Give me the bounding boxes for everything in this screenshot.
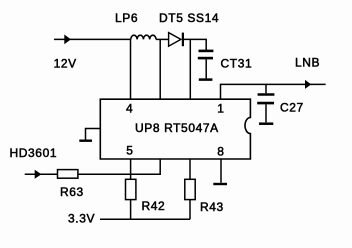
svg-text:CT31: CT31 <box>221 56 253 70</box>
svg-text:LP6: LP6 <box>115 11 138 25</box>
svg-text:C27: C27 <box>280 101 304 115</box>
svg-text:DT5 SS14: DT5 SS14 <box>159 11 219 25</box>
wire inductor to diode <box>156 38 169 40</box>
wire R43 bottom lead <box>189 200 191 220</box>
svg-text:HD3601: HD3601 <box>10 146 58 160</box>
diode DT5 SS14 <box>169 33 183 47</box>
svg-text:1: 1 <box>217 101 224 115</box>
arrow HD3601 flow <box>35 170 42 179</box>
capacitor CT31 <box>198 51 214 79</box>
ground left pin <box>79 139 92 141</box>
wire pin 5 down <box>130 159 132 179</box>
ground pin 8 <box>213 183 227 185</box>
svg-text:R43: R43 <box>200 200 224 214</box>
svg-text:12V: 12V <box>54 57 77 71</box>
svg-text:5: 5 <box>126 144 133 158</box>
wire 3.3V rail <box>100 218 190 220</box>
svg-text:R63: R63 <box>60 185 84 199</box>
svg-text:R42: R42 <box>142 199 166 213</box>
wire R43 riser from U8 <box>189 159 191 179</box>
wire pin 1 riser and LNB output <box>221 84 326 99</box>
resistor R42 <box>126 179 136 199</box>
inductor LP6 <box>131 35 156 39</box>
svg-text:LNB: LNB <box>295 56 320 70</box>
svg-text:UP8 RT5047A: UP8 RT5047A <box>135 121 219 135</box>
wire R63 to pin 5 node and second pin <box>78 159 160 174</box>
wire HD3601 input <box>25 173 58 175</box>
wire R42 bottom lead <box>130 200 132 220</box>
capacitor C27 <box>257 84 274 122</box>
svg-text:4: 4 <box>126 101 133 115</box>
ground CT31 <box>199 78 213 81</box>
wire 12V input rail <box>54 38 131 40</box>
svg-text:8: 8 <box>217 144 224 158</box>
op-amp U8 RT5047A body <box>100 99 250 159</box>
wire pin 8 stub <box>220 159 222 183</box>
wire diode to CT31 <box>184 39 207 50</box>
wire left pin of U8 <box>86 129 101 140</box>
svg-text:3.3V: 3.3V <box>68 212 95 226</box>
resistor R63 <box>58 170 78 179</box>
arrow 12V flow <box>64 35 71 45</box>
wire riser mid pin <box>159 39 161 99</box>
wire riser to pin near 1 <box>189 39 191 99</box>
arrow LNB flow <box>305 80 311 89</box>
resistor R43 <box>185 179 195 199</box>
wire pin 4 riser <box>130 39 132 99</box>
ground C27 <box>259 122 273 125</box>
